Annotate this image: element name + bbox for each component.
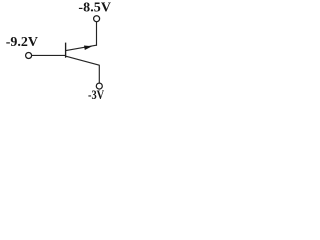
terminal T2 (-8.5V) [94, 16, 100, 22]
transistor Q1 emitter arrow [84, 46, 92, 51]
wire base [32, 54, 66, 56]
transistor Q1 emitter diagonal [66, 45, 97, 50]
terminal T1 (-9.2V) [26, 53, 32, 59]
transistor Q1 base bar [65, 43, 67, 58]
transistor Q1 collector diagonal [66, 56, 100, 65]
terminal T3 (-3V) [96, 83, 102, 89]
svg-text:-3V: -3V [88, 87, 105, 99]
wire emitter vertical [96, 22, 98, 46]
svg-text:-9.2V: -9.2V [6, 35, 38, 50]
svg-text:-8.5V: -8.5V [78, 0, 111, 15]
wire collector vertical [98, 65, 100, 83]
